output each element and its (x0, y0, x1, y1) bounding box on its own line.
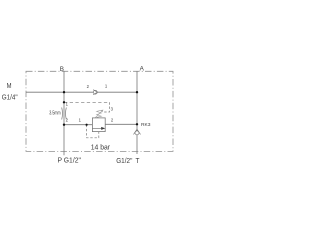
svg-text:14 bar: 14 bar (91, 143, 111, 152)
svg-text:1: 1 (66, 102, 69, 107)
wire: P to relief valve inlet (64, 124, 92, 126)
svg-text:2: 2 (111, 117, 114, 122)
svg-text:1: 1 (79, 118, 82, 123)
relief valve spring (97, 110, 102, 117)
vent line to port 3 (dashed) (103, 102, 110, 112)
svg-text:A: A (140, 66, 145, 73)
junction node A/M (136, 91, 138, 93)
wire: A/T vertical line (136, 71, 138, 154)
pilot sense line (dashed) under valve (87, 125, 99, 138)
svg-text:2: 2 (66, 118, 69, 123)
orifice 3.5mm (62, 108, 67, 120)
svg-text:2: 2 (87, 84, 90, 89)
svg-text:G1/2" T: G1/2" T (116, 156, 140, 165)
svg-text:G1/4": G1/4" (2, 92, 18, 101)
wire: M gauge line (26, 91, 137, 93)
wire: relief valve outlet to T (105, 123, 137, 125)
check valve V2 on M line (93, 90, 97, 95)
junction node P (63, 124, 65, 126)
svg-text:3.5mm: 3.5mm (49, 111, 60, 117)
junction node pilot tap (86, 124, 88, 126)
relief valve RV1 body (92, 118, 105, 132)
pilot line (dashed) from node to vent (64, 101, 110, 103)
junction node T (136, 123, 138, 125)
svg-text:M: M (7, 81, 12, 90)
manifold boundary border (26, 71, 173, 151)
wire: B/P vertical line (63, 71, 65, 155)
svg-text:B: B (60, 66, 64, 73)
svg-text:P G1/2": P G1/2" (58, 155, 82, 164)
check valve RK3 on T line (134, 129, 141, 135)
relief valve flow arrow (92, 127, 101, 129)
relief valve adjustment arrow (95, 110, 102, 117)
junction node B/M (63, 91, 65, 93)
svg-text:3: 3 (111, 106, 114, 111)
junction node pilot (63, 101, 65, 103)
svg-text:1: 1 (105, 84, 108, 89)
svg-text:RK3: RK3 (141, 122, 151, 128)
